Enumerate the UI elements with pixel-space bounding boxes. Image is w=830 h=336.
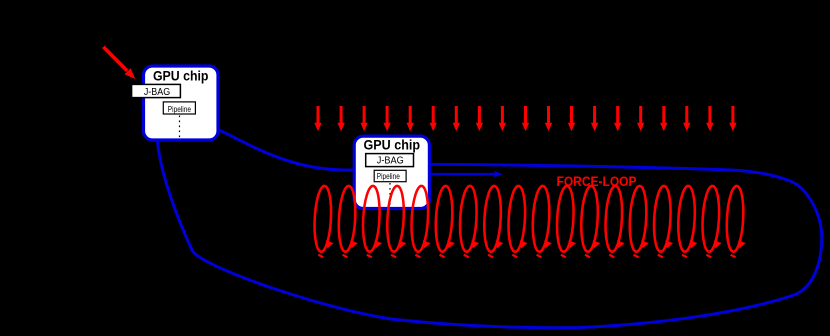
- svg-text:GPU chip: GPU chip: [153, 69, 209, 84]
- svg-text:Pipeline: Pipeline: [377, 171, 400, 181]
- svg-text:Pipeline: Pipeline: [168, 104, 191, 114]
- svg-text:J-BAG: J-BAG: [377, 156, 404, 167]
- svg-text:J-BAG: J-BAG: [144, 87, 170, 98]
- svg-text:GPU chip: GPU chip: [364, 138, 421, 153]
